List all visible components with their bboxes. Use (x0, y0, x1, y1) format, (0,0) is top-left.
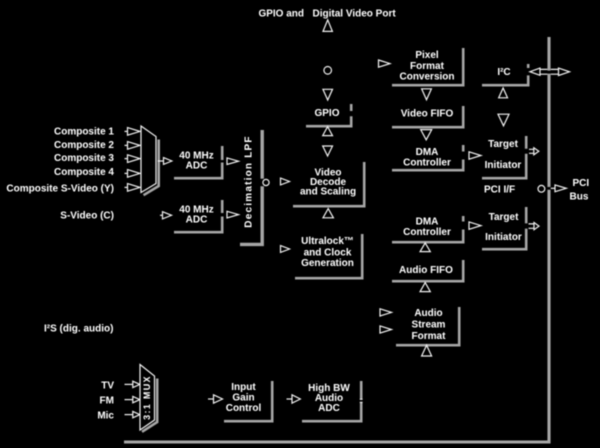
svg-text:Composite 2: Composite 2 (54, 140, 114, 151)
arrow into high bw audio adc (287, 395, 301, 403)
node on decimation LPF output (263, 179, 269, 185)
block Decimation LPF shadow line (240, 130, 264, 244)
block Input Gain Control shadow (224, 381, 272, 421)
svg-text:and Clock: and Clock (304, 247, 352, 258)
svg-text:Control: Control (226, 403, 262, 414)
svg-text:S-Video (C): S-Video (C) (60, 211, 114, 222)
arrow to PCI Bus (551, 185, 567, 192)
arrow up Audio Stream Format to Audio FIFO (420, 283, 430, 292)
arrow Target Initiator 1 to PCI bus (529, 148, 539, 155)
block 40 MHz ADC 1 label (179, 151, 213, 172)
node on PCI interface (538, 185, 545, 192)
svg-text:Composite 1: Composite 1 (54, 127, 114, 138)
block I2C shadow (482, 64, 528, 85)
bidirectional arrow I2C to PCI bus left head (530, 68, 548, 75)
node A on GPIO branch (324, 67, 332, 75)
block DMA Controller 2 shadow (392, 216, 463, 242)
block Ultralock and Clock Generation label (301, 236, 354, 269)
svg-text:Composite S-Video (Y): Composite S-Video (Y) (6, 184, 114, 195)
svg-text:Conversion: Conversion (399, 72, 454, 83)
svg-text:I²C: I²C (497, 67, 510, 78)
block Target Initiator 1 shadow (482, 136, 526, 178)
block Target Initiator 2 label (485, 212, 522, 243)
arrow DMA Controller 1 to Target Initiator 1 (469, 152, 481, 159)
svg-text:PCI: PCI (573, 178, 590, 189)
block High BW Audio ADC shadow (302, 381, 361, 421)
svg-text:Controller: Controller (403, 227, 451, 238)
arrow down Pixel Format Conversion to Video FIFO (422, 89, 432, 100)
svg-text:Format: Format (412, 331, 447, 342)
arrow down into Target Initiator 1 (498, 114, 509, 126)
bidirectional arrow I2C to PCI bus right head (551, 68, 570, 75)
block 40 MHz ADC 1 shadow (174, 146, 222, 178)
block Target Initiator 2 shadow (482, 207, 526, 249)
block Input Gain Control label (226, 382, 262, 414)
svg-text:Format: Format (410, 61, 445, 72)
svg-text:Controller: Controller (403, 157, 451, 168)
arrow TV input (125, 381, 140, 387)
block Video FIFO shadow (392, 106, 463, 127)
arrow down Video FIFO to DMA controller (421, 130, 432, 140)
svg-text:Audio FIFO: Audio FIFO (399, 265, 453, 276)
arrow S-Video C input (160, 212, 172, 219)
high bw audio adc output tick (360, 399, 363, 402)
svg-text:FM: FM (100, 396, 114, 407)
block 40 MHz ADC 2 shadow (174, 200, 222, 232)
svg-text:Pixel: Pixel (415, 50, 439, 61)
audio mux (140, 365, 155, 431)
svg-text:Initiator: Initiator (485, 160, 522, 171)
svg-text:Video FIFO: Video FIFO (401, 109, 454, 120)
block Video Decode and Scaling shadow (293, 162, 364, 206)
block DMA Controller 1 label (403, 147, 451, 168)
svg-text:Audio: Audio (414, 308, 442, 319)
block Pixel Format Conversion label (399, 50, 454, 83)
arrow composite s-video input (125, 184, 141, 192)
svg-text:3:1 MUX: 3:1 MUX (142, 375, 152, 420)
arrow ADC 1 to decimation LPF (227, 158, 239, 165)
svg-text:Target: Target (488, 139, 518, 150)
svg-text:Initiator: Initiator (485, 232, 522, 243)
label PCI Bus (570, 178, 590, 202)
svg-text:and Scaling: and Scaling (300, 186, 356, 197)
block GPIO shadow (306, 104, 351, 126)
svg-text:Composite 3: Composite 3 (54, 153, 114, 164)
arrow composite 1 input (125, 128, 141, 136)
arrow DMA Controller 2 to Target Initiator 2 (469, 222, 481, 229)
svg-text:Digital Video Port: Digital Video Port (313, 9, 397, 20)
arrow into input gain control (208, 395, 223, 403)
svg-text:Bus: Bus (570, 192, 589, 203)
arrow up to digital video port (323, 20, 332, 32)
arrow ADC 2 to decimation LPF (227, 211, 239, 218)
arrow up ultralock to video decode (323, 209, 333, 218)
audio mux shadow (142, 379, 157, 432)
block Audio Stream Format shadow (396, 307, 459, 345)
block Audio Stream Format label (412, 308, 447, 342)
arrow up into Audio Stream Format (422, 345, 432, 356)
svg-text:Decimation LPF: Decimation LPF (244, 135, 255, 227)
block Video Decode and Scaling label (300, 167, 356, 197)
arrow video mux output (158, 158, 172, 165)
arrow into ultralock (281, 246, 290, 253)
arrow up Audio FIFO to DMA Controller 2 (420, 243, 430, 252)
block High BW Audio ADC label (308, 383, 350, 414)
arrow composite 3 input (125, 155, 141, 163)
svg-text:Input: Input (231, 382, 256, 393)
svg-text:Ultralock™: Ultralock™ (301, 236, 354, 247)
block 40 MHz ADC 2 label (179, 205, 213, 226)
svg-text:Composite 4: Composite 4 (54, 167, 114, 178)
svg-text:ADC: ADC (318, 403, 340, 414)
video input mux (141, 126, 156, 193)
svg-text:I²S (dig. audio): I²S (dig. audio) (44, 324, 113, 335)
block DMA Controller 1 shadow (392, 145, 463, 170)
svg-text:Target: Target (489, 212, 519, 223)
svg-text:Generation: Generation (301, 258, 354, 269)
arrow FM input (125, 396, 140, 402)
arrow down into GPIO block (323, 89, 333, 100)
arrow up into I2C (499, 88, 508, 98)
block Ultralock and Clock Generation shadow (295, 234, 362, 278)
arrow Mic input (125, 411, 140, 417)
arrow composite 2 input (125, 142, 141, 150)
block Audio FIFO shadow (392, 260, 463, 281)
svg-text:GPIO and: GPIO and (258, 9, 304, 20)
svg-text:GPIO: GPIO (314, 108, 339, 119)
arrow decimation LPF to video decode (281, 178, 290, 185)
svg-text:ADC: ADC (186, 215, 208, 226)
svg-text:TV: TV (101, 381, 114, 392)
label GPIO and Digital Video Port (258, 9, 396, 20)
arrow I2S line 2 (380, 326, 392, 333)
arrow up from video decode to GPIO (323, 127, 333, 136)
svg-text:ADC: ADC (186, 161, 208, 172)
svg-text:DMA: DMA (416, 216, 439, 227)
PCI bus vertical line and bottom line (124, 37, 551, 443)
arrow composite 4 input (125, 170, 141, 178)
svg-text:Mic: Mic (97, 411, 114, 422)
arrow Target Initiator 2 to PCI bus (529, 223, 540, 230)
arrow into Pixel Format Conversion (379, 60, 391, 67)
block Target Initiator 1 label (485, 139, 522, 171)
block DMA Controller 2 label (403, 216, 451, 238)
arrow down into video decode (323, 146, 333, 156)
block Pixel Format Conversion shadow (392, 48, 463, 85)
arrow I2S line 1 (380, 309, 392, 316)
svg-text:PCI I/F: PCI I/F (484, 185, 515, 196)
svg-text:Stream: Stream (412, 320, 446, 331)
video input mux shadow (144, 140, 159, 196)
svg-text:Gain: Gain (232, 393, 254, 404)
